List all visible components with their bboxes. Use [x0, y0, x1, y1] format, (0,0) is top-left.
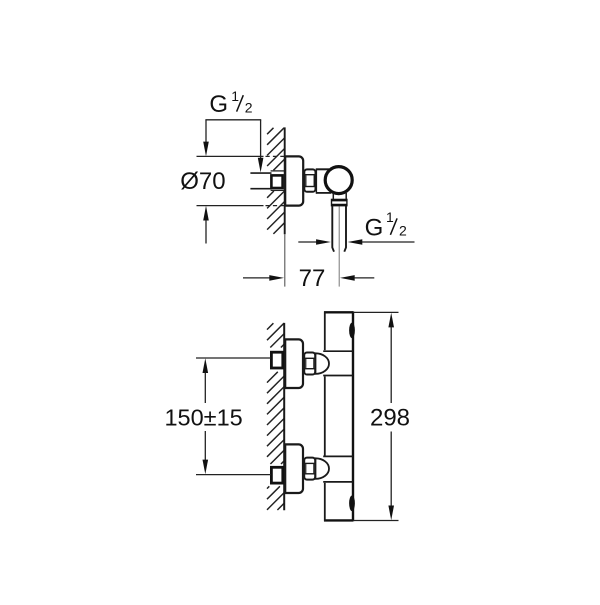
mixer body bottom edge: [324, 519, 353, 521]
dimension 77: right arrow+line: [340, 275, 355, 281]
boss lines (bottom fitting): [323, 455, 353, 457]
svg-text:77: 77: [299, 265, 326, 292]
svg-text:298: 298: [370, 405, 410, 432]
dimension 150: vertical line + arrows: [203, 358, 209, 373]
dimension 77: left line+arrow: [243, 277, 270, 279]
mixer body right edge: [352, 311, 354, 521]
dimension G1/2 top: right drop arrow: [260, 120, 262, 159]
escutcheon (bottom fitting): [285, 444, 303, 493]
dimension 298: vertical line + arrows: [388, 313, 394, 328]
union nut top view: [304, 169, 316, 191]
hose centerline: [338, 207, 340, 287]
union nut (bottom fitting): [304, 458, 316, 480]
dimension 150: extension lines: [196, 357, 271, 359]
wall face line top view: [284, 127, 286, 234]
svg-text:2: 2: [399, 223, 407, 239]
svg-text:G: G: [209, 91, 228, 118]
handle knob circle: [325, 167, 352, 194]
wall extension line for 77 dim: [284, 234, 286, 286]
knob bump bottom: [349, 496, 355, 512]
collar under knob: [332, 193, 334, 200]
union nut (top fitting): [304, 353, 316, 375]
wall hole edge lines: [271, 170, 285, 172]
union square in wall: [271, 175, 282, 188]
dimension Ø70: extension lines: [197, 155, 264, 157]
escutcheon (top fitting): [285, 339, 303, 388]
svg-text:1: 1: [231, 88, 239, 104]
dimension G1/2 top: left drop arrow: [205, 120, 207, 143]
dimension 298: extension lines: [353, 311, 398, 313]
hose connector: [332, 206, 334, 252]
knob bump top: [349, 323, 355, 339]
union square in wall (bottom fitting): [271, 467, 282, 483]
wall face line bottom view: [283, 323, 285, 510]
dimension Ø70: bottom arrow: [203, 206, 209, 221]
outlet flange: [332, 199, 347, 205]
dimension G1/2 hose: right arrow+line: [348, 239, 363, 245]
escutcheon top view: [285, 156, 303, 205]
dimension G1/2 top: line: [205, 119, 261, 121]
dome cap (top fitting): [315, 353, 329, 374]
svg-text:150±15: 150±15: [164, 405, 242, 431]
dimension G1/2 hose: left line+arrow: [298, 241, 316, 243]
mixer body left edge segments: [324, 311, 326, 350]
svg-text:1: 1: [386, 209, 394, 225]
valve body top view: [316, 170, 330, 193]
dome cap (bottom fitting): [315, 458, 329, 479]
boss lines (top fitting): [323, 350, 353, 352]
svg-text:2: 2: [245, 99, 253, 115]
mixer body top edge: [324, 311, 353, 313]
supply nipple pipe: [250, 172, 271, 174]
mixer body fill: [325, 312, 353, 520]
union square in wall (top fitting): [271, 352, 282, 368]
svg-text:Ø70: Ø70: [180, 168, 225, 195]
wall hatching bottom view: [267, 323, 284, 510]
svg-text:G: G: [365, 214, 384, 241]
wall hatching top view: [267, 128, 285, 234]
